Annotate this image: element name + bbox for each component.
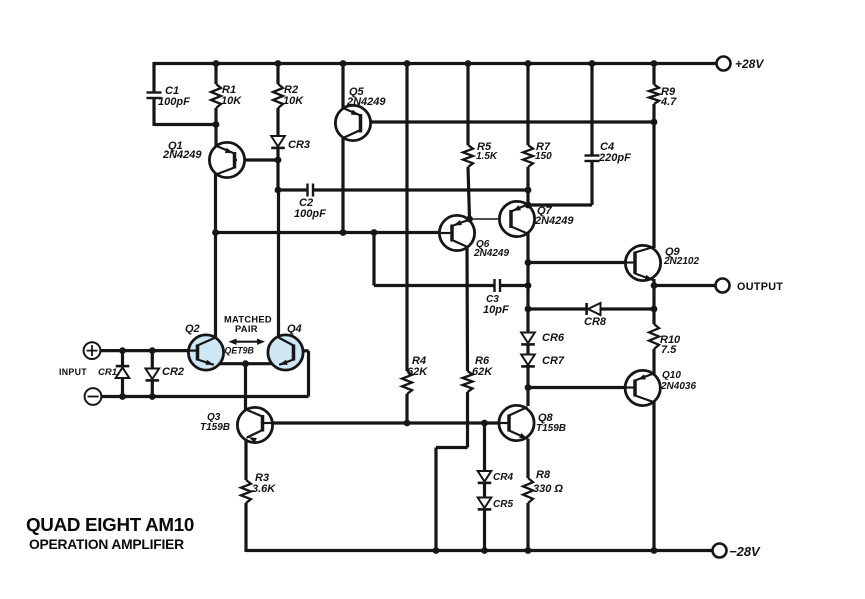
wire CR1 upper lead [121,351,124,367]
wire C4 wire to Q7 emitter [528,203,592,206]
junction emitter rail / Q3 [242,360,249,367]
transistor Q5 2N4249 [335,105,370,140]
label R3 value [252,483,276,495]
junction C1/R1 [213,121,220,128]
svg-text:CR3: CR3 [288,139,310,151]
wire R6 bottom [466,392,469,448]
wire R5 bottom to Q6 emitter node [468,167,470,219]
junction C2 / R7 [525,187,532,194]
label R2 [284,84,298,96]
label R8 value [533,483,563,495]
wire Q10 collector to -28V rail [652,401,655,551]
junction Q7 collector / Q9 base [525,259,532,266]
junction Q10 collector on -28V rail [651,547,658,554]
svg-text:Q10: Q10 [662,370,681,381]
label C3 [486,294,499,305]
label Q9 [665,246,681,258]
resistor R1 10K [211,84,221,108]
label OUTPUT [737,281,783,293]
transistor Q4 QET9B [268,335,303,370]
wire C2 right to R7 [314,188,529,191]
wire R10 bottom to Q10 emitter [652,349,655,374]
diode CR5 [478,498,492,510]
svg-text:CR1: CR1 [98,367,117,378]
wire C3 branch vertical [372,233,375,286]
svg-text:10pF: 10pF [483,304,509,316]
label C1 [165,85,179,97]
junction Q1-Q2 collectors [212,229,219,236]
resistor R2 10K [273,84,283,108]
wire R6 jog down to -28V rail [434,448,437,551]
wire Q7 collector down [526,234,529,334]
label R10 value [661,344,677,356]
svg-text:4.7: 4.7 [660,96,677,108]
wire Q8 emitter to R8 [526,439,529,479]
label R8 [536,469,551,481]
resistor R3 3.6K [241,480,251,503]
wire Q9 collector up [652,122,655,248]
label R9 value [660,96,677,108]
junction on +28V rail [404,60,411,67]
label CR7 [542,355,565,367]
svg-text:2N2102: 2N2102 [663,256,699,267]
matched pair arrow [229,339,266,345]
junction CR8 left [525,306,532,313]
wire + input [100,349,190,352]
label CR6 [542,332,565,344]
svg-text:CR6: CR6 [542,332,565,344]
svg-text:100pF: 100pF [294,208,326,220]
diode CR8 [587,303,601,315]
wire Q2 collector up [214,233,217,339]
junction Q8 collector / Q10 base [525,384,532,391]
svg-text:OUTPUT: OUTPUT [737,281,783,293]
wire R2 bottom to CR3 [276,108,279,137]
wire Q6 base to Q7 base (thin) [470,218,512,220]
label R5 [477,141,492,153]
wire C1 branch lower [152,98,155,126]
label C3 value [483,304,509,316]
wire emitter rail Q2 Q4 [213,362,283,365]
junction on +28V rail [275,60,282,67]
wire CR6 CR7 link [526,344,529,355]
svg-text:150: 150 [535,151,552,162]
label Q1 type [162,149,202,161]
terminal -28V [713,544,727,558]
svg-text:220pF: 220pF [598,152,631,164]
label -28V [729,544,761,559]
label Q3 [207,412,221,423]
diode CR4 [478,471,492,483]
label Q8 type [536,423,566,434]
label CR3 [288,139,310,151]
capacitor C2 100pF [308,184,314,197]
label Q8 [538,412,554,424]
wire CR8 right [601,307,655,310]
wire C4 top lead [590,64,593,156]
wire CR1 lower lead [121,379,124,397]
terminal input - [85,388,102,405]
wire R4 bottom to Q8 base line [405,394,408,423]
label CR4 [493,472,513,483]
svg-text:MATCHED: MATCHED [224,315,272,325]
svg-text:INPUT: INPUT [59,367,87,377]
label Q6 type [473,248,509,259]
capacitor C1 100pF [147,93,162,99]
wire Q5 collector down [341,137,344,233]
transistor Q10 2N4036 [625,370,660,405]
junction R9 / Q5 base / Q9 collector [651,119,658,126]
svg-text:−28V: −28V [729,544,761,559]
label R7 [536,141,551,153]
wire CR7 to Q8 collector node [526,367,529,407]
label R10 [660,334,681,346]
transistor Q3 T159B [237,407,272,443]
wire CR5 to -28V rail [483,510,486,551]
wire CR2 upper lead [151,351,154,368]
svg-text:2N4249: 2N4249 [473,248,509,259]
wire Q5 emitter up [341,64,344,109]
label C2 value [294,208,326,220]
wire R5 top lead [466,64,469,146]
label Q7 type [534,215,574,227]
label Q3 type [200,422,230,433]
wire R9 bottom to Q5 base node [652,104,655,122]
wire Q4 base vertical [307,351,310,397]
label C4 [600,141,614,153]
wire C4 bottom lead [590,161,593,205]
svg-text:CR4: CR4 [493,472,513,483]
wire C1 to R1 junction horizontal [154,123,216,126]
label R1 value [221,95,242,107]
svg-text:10K: 10K [283,95,304,107]
label Q10 type [660,381,696,392]
svg-text:Q2: Q2 [185,323,200,335]
label +28V [735,57,764,71]
wire R10 top lead [652,309,655,324]
svg-text:2N4036: 2N4036 [660,381,696,392]
label C4 value [598,152,631,164]
label CR2 [162,366,184,378]
label PAIR [235,324,258,334]
junction CR3 / C2 / Q4 collector [275,187,282,194]
junction CR4 / base line [481,420,488,427]
svg-text:CR2: CR2 [162,366,184,378]
label R2 value [283,95,304,107]
wire R7 top lead [526,64,529,146]
svg-text:100pF: 100pF [158,96,190,108]
wire R2 top lead [276,64,279,85]
wire Q10 base line [528,386,625,389]
transistor Q1 2N4249 [209,142,244,177]
junction on +28V rail [651,60,658,67]
svg-text:R8: R8 [536,469,551,481]
junction Q9 emitter / OUTPUT [651,282,658,289]
svg-text:2N4249: 2N4249 [534,215,574,227]
junction on +28V rail [340,60,347,67]
junction CR8 right / R10 [651,306,658,313]
wire C1 branch upper [152,62,155,92]
wire R6 jog horizontal [436,446,468,449]
svg-text:1.5K: 1.5K [476,151,498,162]
diode CR3 [271,136,285,148]
title QUAD EIGHT AM10 [26,514,194,535]
resistor R10 7.5 [649,324,659,349]
label R6 value [472,366,493,378]
label R3 [255,472,269,484]
label Q9 type [663,256,699,267]
wire CR4 top lead [483,423,486,471]
junction CR5 on -28V rail [481,547,488,554]
label CR5 [493,499,513,510]
junction R7 / C4 / Q7 emitter [525,202,532,209]
wire C3 right [501,284,529,287]
junction CR2 bottom [149,393,156,400]
label Q4 [287,323,302,335]
junction on +28V rail [589,60,596,67]
wire Q9 emitter to OUTPUT node [652,279,655,309]
wire OUTPUT [654,284,716,287]
wire CR4 CR5 link [483,484,486,498]
label Q5 type [346,96,386,108]
junction Q5 collector [340,229,347,236]
svg-text:CR7: CR7 [542,355,565,367]
svg-text:CR8: CR8 [584,316,607,328]
wire R1 top lead [214,64,217,85]
svg-text:Q4: Q4 [287,323,302,335]
wire Q5 base line to R9 [362,120,654,123]
junction on +28V rail [213,60,220,67]
junction R5 / Q6 emitter / Q7 base [466,216,473,223]
svg-text:2N4249: 2N4249 [162,149,202,161]
transistor Q2 QET9B [188,335,223,370]
wire - input [101,395,309,398]
terminal OUTPUT [716,279,730,293]
wire C3 left [374,284,494,287]
label INPUT [59,367,87,377]
junction on +28V rail [525,60,532,67]
label R5 value [476,151,498,162]
subtitle OPERATION AMPLIFIER [29,537,184,552]
svg-text:OPERATION AMPLIFIER: OPERATION AMPLIFIER [29,537,184,552]
resistor R8 330 [523,478,533,503]
wire Q1 base [236,158,278,161]
label QET9B [225,346,255,356]
wire R8 to -28V rail [526,503,529,551]
wire CR8 left [528,307,587,310]
label C1 value [158,96,190,108]
transistor Q8 T159B [499,405,534,440]
svg-text:T159B: T159B [536,423,566,434]
resistor R5 1.5K [463,145,473,167]
wire Q4 base horizontal [294,349,309,352]
junction CR2 top [149,347,156,354]
resistor R6 62K [463,371,473,392]
diode CR2 [146,369,160,381]
junction R4 / base line [404,420,411,427]
transistor Q6 2N4249 [439,215,474,250]
label Q7 [537,205,553,217]
junction C3 branch [371,229,378,236]
junction R6 jog on -28V rail [433,547,440,554]
label C2 [299,197,313,209]
junction on +28V rail [465,60,472,67]
wire C2 left [278,188,307,191]
junction Q1 base / CR3 [275,157,282,164]
svg-text:3.6K: 3.6K [252,483,276,495]
svg-text:+28V: +28V [735,57,764,71]
wire R9 top lead [652,64,655,85]
label R9 [661,86,676,98]
resistor R7 150 [523,145,533,167]
label R1 [222,84,236,96]
junction R8 on -28V rail [525,547,532,554]
svg-text:CR5: CR5 [493,499,513,510]
junction CR1 top [119,347,126,354]
label Q6 [476,239,490,250]
capacitor C4 220pF [585,156,600,162]
label Q10 [662,370,681,381]
wire Q4 collector up [277,190,280,338]
wire R4 column from +28V [405,64,408,372]
wire R1 bottom to Q1 emitter [214,108,217,147]
diode CR1 [116,366,130,378]
resistor R9 4.7 [649,85,659,105]
svg-text:QET9B: QET9B [225,346,255,356]
diode CR6 [521,333,535,345]
label Q5 [349,86,365,98]
transistor Q7 2N4249 [499,201,534,236]
label MATCHED [224,315,272,325]
label Q2 [185,323,200,335]
label R6 [475,355,490,367]
svg-text:330 Ω: 330 Ω [533,483,563,495]
label R7 value [535,151,552,162]
label R4 [412,355,426,367]
resistor R4 62K [402,371,412,394]
wire Q3 emitter to R3 [244,441,247,481]
terminal +28V [717,57,731,71]
wire Q6 collector to R6 [465,247,469,372]
wire Q1 collector node to Q6 base [216,231,441,234]
label CR1 [98,367,117,378]
junction CR1 bottom [119,393,126,400]
wire CR3 to Q1 base node [276,148,279,191]
svg-text:2N4249: 2N4249 [346,96,386,108]
wire Q3 base to Q8 base [263,421,500,424]
svg-text:PAIR: PAIR [235,324,258,334]
wire Q1 collector down [214,174,217,234]
wire R3 to -28V rail corner [244,503,247,552]
wire +28V top rail [154,62,717,65]
terminal input + [84,342,101,359]
wire -28V bottom rail [246,549,713,552]
label Q1 [168,140,183,152]
wire R7 bottom to C2 node [526,167,529,205]
wire Q9 base line [528,261,627,264]
svg-text:7.5: 7.5 [661,344,677,356]
svg-text:T159B: T159B [200,422,230,433]
diode CR7 [521,355,535,367]
junction C3 right [525,282,532,289]
svg-text:10K: 10K [221,95,242,107]
capacitor C3 10pF [495,279,501,292]
svg-text:62K: 62K [407,366,428,378]
wire CR2 lower lead [151,380,154,397]
transistor Q9 2N2102 [625,245,660,280]
wire emitter node to Q3 collector [244,364,247,410]
svg-text:QUAD EIGHT AM10: QUAD EIGHT AM10 [26,514,194,535]
label R4 value [407,366,428,378]
label CR8 [584,316,607,328]
svg-text:62K: 62K [472,366,493,378]
